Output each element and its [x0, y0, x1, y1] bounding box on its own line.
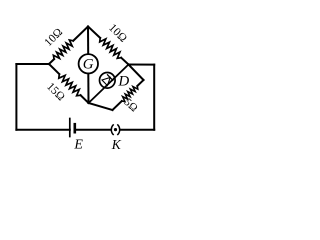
galvanometer branch wire top — [87, 27, 89, 55]
wire key to bottom-right corner — [121, 129, 155, 131]
wire left horizontal — [16, 63, 49, 65]
wire 5ohm to P2 — [137, 80, 143, 86]
key contact dot — [114, 128, 117, 131]
resistor 5ohm — [122, 86, 138, 102]
wire bottom-left to battery — [16, 129, 69, 131]
wire left vertical — [15, 64, 17, 130]
wire P2 to right vertex — [129, 65, 144, 81]
resistor 10ohm top-right arm — [88, 27, 129, 65]
resistor 10ohm top-left arm — [49, 27, 88, 65]
battery cell E — [70, 119, 75, 137]
diode cathode bar — [108, 75, 113, 81]
parallel branch wire bottom vertex to P1 — [89, 103, 113, 110]
key K (plug key) — [111, 125, 119, 135]
svg-text:G: G — [83, 57, 94, 73]
svg-text:K: K — [111, 137, 122, 152]
svg-text:15Ω: 15Ω — [44, 81, 67, 104]
galvanometer branch wire bottom — [87, 74, 89, 104]
diode branch wire through circle — [89, 65, 129, 104]
wire right vertical — [153, 65, 155, 130]
wire battery to key — [75, 129, 111, 131]
galvanometer G circle — [79, 54, 98, 73]
svg-text:D: D — [117, 74, 129, 90]
parallel branch wire P1 to 5ohm — [113, 101, 122, 110]
svg-text:E: E — [73, 138, 83, 153]
resistor 15ohm bottom-left arm — [49, 64, 89, 103]
diode D circle — [100, 73, 116, 89]
wire right horizontal — [129, 64, 155, 66]
diode triangle — [102, 78, 110, 86]
